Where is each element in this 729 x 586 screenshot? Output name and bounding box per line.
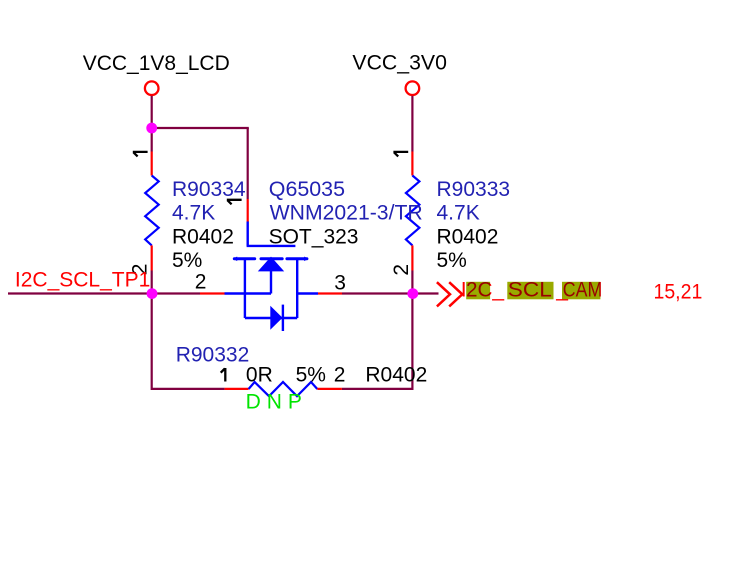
svg-text:R90332: R90332 [176, 344, 250, 367]
off-page connector chevron 2 [449, 282, 462, 306]
transistor Q65035 pin number 1 [227, 200, 242, 205]
svg-text:DNP: DNP [246, 390, 308, 413]
wire: Q65035 pin 3 to right node [342, 292, 412, 294]
wire: right bottom loop down and left to R90332 pin 2 [342, 294, 413, 389]
transistor Q65035 channel bar left [234, 257, 254, 260]
power symbol circle VCC_1V8_LCD [145, 81, 159, 95]
transistor Q65035 channel right arrow tip [304, 257, 308, 262]
net label highlight box over CAM [562, 282, 600, 300]
transistor Q65035 bottom line [245, 317, 297, 319]
svg-text:SCL: SCL [508, 279, 552, 302]
junction node at VCC_1V8_LCD branch [146, 123, 157, 134]
wire: left horizontal rail I2C_SCL_TP1 [8, 292, 200, 294]
power symbol circle VCC_3V0 [406, 81, 420, 95]
wire: right node to off-page connector [412, 292, 438, 294]
junction node left I2C_SCL_TP1 [147, 288, 158, 299]
svg-text:WNM2021-3/TR: WNM2021-3/TR [270, 202, 423, 225]
transistor Q65035 pin 3 lead (red) [318, 292, 342, 294]
svg-text:SOT_323: SOT_323 [269, 225, 359, 248]
svg-text:R0402: R0402 [365, 364, 427, 387]
transistor Q65035 gate line [247, 222, 296, 246]
transistor Q65035 gate pin lead (pin 1) [247, 199, 249, 222]
svg-text:VCC_1V8_LCD: VCC_1V8_LCD [83, 52, 230, 75]
wire: left bottom loop down and right to R90332 pin 1 [152, 293, 225, 389]
transistor Q65035 pin 2 internal lead [225, 292, 272, 294]
resistor R90332 pin 1 lead [225, 388, 249, 390]
resistor R90332 body [249, 382, 318, 396]
svg-text:I2C_SCL_TP1: I2C_SCL_TP1 [15, 269, 150, 292]
wire: right column above node [411, 271, 413, 294]
svg-text:2: 2 [334, 364, 346, 387]
svg-text:R0402: R0402 [437, 225, 499, 248]
wire: left column from power symbol down to R90334 pin 1 [151, 96, 153, 152]
svg-text:R90333: R90333 [437, 178, 511, 201]
net label highlight box over SCL [507, 282, 553, 300]
resistor R90333 pin 1 lead [411, 152, 413, 176]
transistor Q65035 body diode anode triangle [270, 306, 282, 330]
transistor Q65035 pin 2 lead (red) [200, 292, 225, 294]
resistor R90333 body [406, 176, 420, 246]
svg-text:15,21: 15,21 [654, 280, 703, 303]
resistor R90334 pin 2 lead [151, 245, 153, 270]
transistor Q65035 drain vertical line [296, 259, 298, 318]
transistor Q65035 body arrow head [258, 257, 284, 272]
svg-text:Q65035: Q65035 [269, 178, 345, 201]
transistor Q65035 channel left arrow tip [233, 257, 237, 262]
svg-text:4.7K: 4.7K [172, 202, 215, 225]
svg-text:VCC_3V0: VCC_3V0 [352, 52, 447, 75]
svg-text:4.7K: 4.7K [437, 202, 480, 225]
wire: right column from power symbol down [411, 96, 413, 152]
svg-text:_: _ [491, 279, 504, 302]
svg-text:3: 3 [334, 272, 346, 295]
off-page connector chevron 1 [437, 282, 450, 306]
transistor Q65035 channel bar right [287, 257, 307, 260]
transistor Q65035 body diode cathode bar [282, 305, 284, 331]
svg-text:0R: 0R [246, 364, 273, 387]
svg-text:R0402: R0402 [172, 225, 234, 248]
wire: gate branch vertical [247, 128, 249, 199]
resistor R90332 pin number 1 [221, 368, 226, 382]
svg-text:CAM: CAM [563, 279, 603, 302]
svg-text:5%: 5% [172, 249, 202, 272]
svg-text:5%: 5% [296, 364, 326, 387]
svg-text:2: 2 [195, 271, 207, 294]
svg-text:2C: 2C [466, 279, 493, 302]
transistor Q65035 source vertical line [244, 259, 246, 318]
transistor Q65035 channel bar middle [261, 257, 282, 260]
svg-text:R90334: R90334 [172, 178, 246, 201]
transistor Q65035 body arrow stem [270, 270, 272, 294]
net label I2C_SCL_CAM text [461, 279, 603, 302]
resistor R90332 pin 2 lead [317, 388, 342, 390]
resistor R90334 body [145, 176, 159, 246]
transistor Q65035 pin 3 internal lead [297, 292, 318, 294]
net label highlight box over 2C [466, 282, 490, 300]
svg-text:2: 2 [390, 264, 413, 276]
resistor R90333 pin 2 lead [411, 245, 413, 270]
resistor R90333 pin number 1 [393, 152, 408, 157]
junction node right I2C_SCL_CAM [407, 288, 418, 299]
svg-text:5%: 5% [437, 249, 467, 272]
resistor R90334 pin number 1 [133, 152, 148, 157]
wire: left column between R90334 pin 2 and node [151, 271, 153, 294]
wire: branch junction to gate (horizontal) [151, 127, 249, 129]
resistor R90334 pin 1 lead [151, 152, 153, 176]
